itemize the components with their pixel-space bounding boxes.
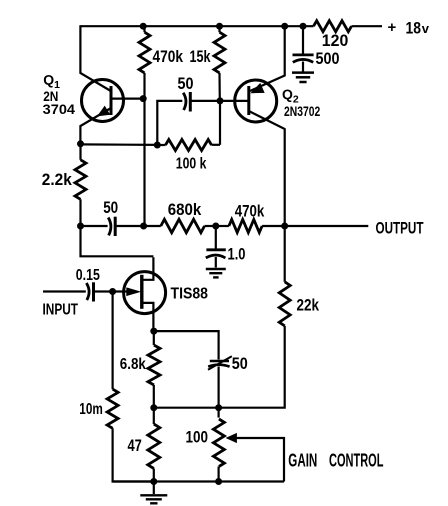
wire 680k to 1.0 node [205, 225, 216, 227]
transistor TIS88 channel bar [140, 275, 143, 309]
wire Q1 base [111, 97, 145, 99]
wire trimmer to row [218, 367, 220, 408]
svg-text:470k: 470k [235, 203, 265, 221]
svg-text:15k: 15k [190, 48, 212, 66]
svg-text:50: 50 [103, 199, 118, 217]
wire TIS88 gate [113, 290, 132, 292]
wire 22k bottom lead [154, 326, 285, 408]
capacitor C-0.15 curved plate [86, 283, 89, 300]
capacitor C-50 trimmer plate1 [210, 360, 229, 363]
wire drain to 2.2k node [81, 226, 154, 256]
node 6.8k / row [150, 404, 157, 411]
resistor R-22k [279, 282, 290, 326]
resistor R-10m [107, 389, 118, 428]
arrow TIS88 gate [127, 288, 140, 295]
svg-text:470k: 470k [153, 48, 184, 66]
svg-text:OUTPUT: OUTPUT [376, 219, 424, 238]
resistor R-100k [166, 140, 212, 151]
arrow Q1 emitter (NPN) [98, 107, 109, 116]
transistor Q2 circle [235, 80, 277, 122]
wire Q2 base [220, 100, 249, 102]
svg-text:120: 120 [322, 32, 349, 50]
resistor R-47 [148, 424, 160, 469]
wire 470k to base node [143, 26, 145, 32]
svg-text:6.8k: 6.8k [120, 356, 146, 373]
resistor R-15k [214, 32, 225, 73]
svg-text:+: + [388, 19, 397, 36]
node source / 6.8k [150, 328, 157, 335]
node top-rail / Q2 emitter [281, 23, 288, 30]
transistor Q1 circle [82, 80, 124, 122]
capacitor C-50 (feedback) curved plate [183, 93, 186, 110]
node trimmer / pot [215, 404, 222, 411]
wire top +18v rail [80, 25, 313, 27]
wire network bottom right [212, 144, 221, 146]
svg-text:500: 500 [316, 50, 340, 68]
resistor R-680k [161, 219, 205, 232]
wire input lead [43, 290, 86, 292]
ground under 1.0 cap [206, 268, 226, 270]
capacitor C-500 plate2 [293, 59, 313, 62]
svg-text:TIS88: TIS88 [171, 285, 209, 302]
node input / gate / 10m [109, 288, 116, 295]
wire Q1 emitter [80, 108, 111, 144]
svg-text:v: v [422, 21, 430, 36]
ground under 500 cap [292, 71, 314, 74]
wire to 50 cap [81, 225, 108, 227]
svg-text:22k: 22k [297, 297, 320, 315]
wire Q2 collector [249, 111, 285, 226]
wire Q1 emitter row [81, 143, 158, 146]
wire TIS88 source [142, 303, 154, 331]
wire 2.2k bottom lead [79, 199, 81, 226]
wire network right side [219, 101, 221, 145]
svg-text:680k: 680k [168, 201, 202, 219]
svg-text:GAIN: GAIN [288, 450, 317, 470]
svg-text:2.2k: 2.2k [42, 171, 73, 189]
capacitor C-1.0 plate2 [206, 255, 226, 258]
resistor R-470k (feedback) [229, 220, 262, 233]
node OUTPUT junction [281, 223, 288, 230]
svg-text:INPUT: INPUT [43, 302, 79, 319]
wire 1.0-cap to ground [215, 257, 217, 268]
resistor R-470k (top) [139, 32, 150, 73]
wire 470k-row right lead [262, 225, 285, 227]
wire 6.8k top lead [153, 331, 155, 345]
wire 470k-row left lead [216, 225, 229, 227]
resistor R-2.2k [75, 160, 86, 200]
node Q1 emitter junction [77, 140, 84, 147]
resistor R-100 potentiometer [213, 419, 224, 467]
capacitor C-50 trimmer plate2 [208, 365, 229, 367]
resistor R-6.8k [148, 345, 160, 385]
wire 2.2k top lead [79, 144, 81, 160]
svg-text:47: 47 [128, 437, 142, 455]
svg-text:10m: 10m [79, 401, 103, 418]
wire TIS88 drain [142, 257, 154, 280]
transistor U1 TIS88 circle [124, 272, 166, 314]
wire 500-cap to ground [302, 62, 304, 72]
arrow Q2 emitter (PNP) [252, 84, 264, 93]
wire 47 top lead [153, 408, 155, 424]
node top-rail / 500 cap [300, 23, 307, 30]
wire wiper to gain control [229, 438, 284, 482]
node Q1-base / 470k [140, 95, 147, 102]
wire bottom rail [113, 480, 284, 482]
wire pot top lead [218, 408, 220, 418]
wire 50cap to node [115, 225, 144, 227]
svg-text:100 k: 100 k [176, 155, 207, 172]
wire 1.0-cap stem [215, 226, 217, 249]
node 47 / ground [150, 478, 157, 485]
arrow trimmer [208, 356, 232, 370]
wire 6.8k bottom lead [153, 385, 155, 408]
wire 500-cap stem [302, 26, 304, 53]
node 2.2k / 50cap [77, 223, 84, 230]
wire rail after 120 [352, 25, 383, 27]
svg-text:0.15: 0.15 [76, 267, 100, 284]
svg-text:2N3702: 2N3702 [284, 103, 320, 119]
wire 680k left lead [145, 225, 161, 227]
node top-rail / 15k [216, 23, 223, 30]
wire 22k top lead [284, 226, 286, 282]
capacitor C-500 plate1 [293, 54, 314, 57]
transistor Q1 base bar [110, 86, 113, 115]
wire source row [154, 331, 219, 359]
svg-text:CONTROL: CONTROL [329, 450, 384, 470]
svg-text:50: 50 [178, 75, 194, 93]
wire network bottom left [157, 144, 165, 146]
wire to OUTPUT [285, 225, 369, 227]
wire cap to gate node [94, 290, 113, 292]
svg-text:18: 18 [406, 20, 422, 38]
svg-text:100: 100 [186, 428, 209, 446]
arrow pot wiper [227, 434, 237, 443]
wire 15k leads [218, 26, 220, 32]
wire 470k vertical [143, 73, 145, 226]
wire cap to node [190, 100, 220, 102]
capacitor C-50 (input of Q1 stage) curved plate [108, 218, 111, 236]
wire 10m bottom lead [113, 428, 154, 481]
node top-rail / 470k [140, 23, 147, 30]
wire pot bottom lead [218, 467, 220, 482]
node 680k / 470k / 1.0 [212, 223, 219, 230]
svg-text:1.0: 1.0 [228, 246, 246, 264]
svg-text:3704: 3704 [43, 101, 76, 117]
capacitor C-50 (feedback) flat plate [189, 92, 192, 112]
wire 10m top lead [111, 292, 113, 390]
wire 47 bottom lead [153, 469, 155, 495]
svg-text:50: 50 [232, 355, 248, 373]
capacitor C-0.15 flat plate [92, 282, 95, 301]
wire Q2 emitter vertical [250, 25, 285, 91]
node 15k / Q2 base [217, 97, 224, 104]
node network bottom-left [154, 142, 161, 149]
capacitor C-50 flat plate [114, 217, 117, 236]
node 470k / 680k [140, 223, 147, 230]
resistor 120 [314, 21, 352, 32]
node pot / bottom rail [215, 478, 222, 485]
ground main [140, 494, 167, 496]
capacitor C-1.0 plate1 [206, 248, 225, 251]
transistor Q2 base bar [247, 86, 250, 115]
wire network top-left corner [157, 101, 182, 145]
wire Q1 collector [80, 25, 110, 91]
